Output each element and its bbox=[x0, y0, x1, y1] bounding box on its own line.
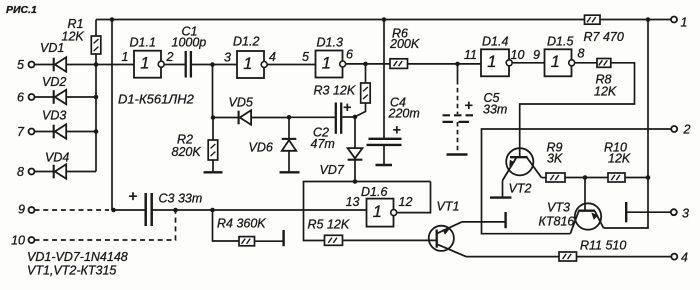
node VD5 anode junction bbox=[211, 115, 216, 120]
gate D1.3 bbox=[316, 51, 343, 78]
diode VD4 bbox=[35, 171, 54, 173]
svg-text:C3 33m: C3 33m bbox=[159, 192, 203, 206]
svg-text:РИС.1: РИС.1 bbox=[6, 4, 37, 16]
gate D1.6 bbox=[367, 199, 394, 227]
node D1.3 output junction bbox=[363, 62, 368, 67]
node C2-VD7 junction bbox=[353, 115, 358, 120]
terminal pin 7 bbox=[29, 129, 35, 135]
wire R11 to pin4 bbox=[577, 256, 672, 258]
svg-text:VD1-VD7-1N4148: VD1-VD7-1N4148 bbox=[27, 250, 128, 264]
wire rail to pin9 line bbox=[111, 20, 113, 211]
svg-text:VT3: VT3 bbox=[547, 201, 570, 215]
svg-text:820K: 820K bbox=[172, 145, 202, 159]
svg-text:1: 1 bbox=[373, 203, 382, 221]
ground C4 bbox=[376, 164, 393, 166]
node C1 output junction bbox=[210, 62, 215, 67]
svg-text:9: 9 bbox=[533, 48, 540, 62]
svg-text:VD2: VD2 bbox=[42, 75, 66, 89]
capacitor C2 bbox=[289, 116, 335, 118]
wire VT3 base bbox=[584, 178, 586, 211]
diode VD2 bbox=[35, 96, 54, 98]
svg-text:1: 1 bbox=[322, 54, 331, 72]
svg-text:2: 2 bbox=[683, 123, 691, 137]
resistor R2 bbox=[212, 118, 214, 141]
gate D1.5 bbox=[545, 49, 572, 76]
svg-text:1: 1 bbox=[122, 50, 129, 64]
node rail junction C4 tap bbox=[382, 17, 387, 22]
transistor VT3 bbox=[575, 203, 601, 229]
svg-text:1: 1 bbox=[681, 16, 688, 30]
capacitor C3 bbox=[144, 193, 147, 226]
diode VD1 bbox=[35, 64, 54, 66]
svg-text:10: 10 bbox=[11, 234, 25, 248]
svg-text:5: 5 bbox=[302, 50, 309, 64]
svg-text:VD4: VD4 bbox=[45, 151, 69, 165]
terminal pin 3 bbox=[671, 209, 677, 215]
svg-text:6: 6 bbox=[17, 91, 24, 105]
wire pin1 vertical bbox=[604, 20, 649, 229]
svg-text:200K: 200K bbox=[389, 37, 420, 51]
svg-text:VT1,VT2-КТ315: VT1,VT2-КТ315 bbox=[27, 264, 116, 278]
node bus-VD1 bbox=[94, 62, 99, 67]
svg-text:3: 3 bbox=[682, 207, 689, 221]
node C5 tap bbox=[455, 62, 460, 67]
svg-text:D1-К561ЛН2: D1-К561ЛН2 bbox=[118, 92, 195, 107]
resistor R1 bbox=[95, 20, 97, 37]
svg-text:R4 360K: R4 360K bbox=[217, 217, 266, 231]
svg-text:33m: 33m bbox=[483, 103, 507, 117]
wire R9 to R10 bbox=[565, 177, 608, 179]
diode VD5 bbox=[213, 117, 239, 119]
transistor VT1 bbox=[429, 226, 454, 251]
wire plate to pin3 bbox=[626, 211, 670, 213]
diode VD7 bbox=[354, 117, 356, 148]
wire D1.2 out to D1.3 bbox=[268, 64, 316, 66]
svg-text:1: 1 bbox=[551, 53, 560, 71]
node bus-VD2 bbox=[94, 95, 99, 100]
svg-text:D1.4: D1.4 bbox=[482, 35, 508, 49]
svg-text:1: 1 bbox=[140, 55, 149, 73]
node bus-VD3 bbox=[94, 129, 99, 134]
ground VT2 emitter bbox=[490, 196, 512, 198]
terminal pin 6 bbox=[29, 94, 35, 100]
svg-text:D1.1: D1.1 bbox=[130, 36, 156, 50]
transistor VT2 bbox=[506, 148, 533, 175]
terminal pin 9 bbox=[29, 207, 35, 213]
terminal pin 5 bbox=[29, 62, 35, 68]
svg-text:5: 5 bbox=[17, 58, 24, 72]
svg-text:D1.5: D1.5 bbox=[547, 35, 573, 49]
wire D1.3 out bbox=[346, 63, 390, 65]
node VT3 base junction bbox=[583, 175, 588, 180]
ground plate VT1 bbox=[504, 212, 506, 228]
resistor R3 bbox=[365, 64, 367, 83]
ground VD6 bbox=[280, 171, 300, 173]
resistor R11 bbox=[559, 252, 577, 261]
svg-text:КТ816: КТ816 bbox=[539, 215, 575, 229]
node rail junction at x112 bbox=[110, 17, 115, 22]
wire R8 to VT2 base bbox=[520, 63, 635, 157]
svg-text:D1.3: D1.3 bbox=[317, 36, 343, 50]
svg-text:3: 3 bbox=[224, 51, 231, 65]
capacitor C5 (dashed) bbox=[457, 64, 459, 80]
terminal pin 2 bbox=[671, 126, 677, 132]
svg-text:VD7: VD7 bbox=[320, 163, 345, 177]
resistor R7 bbox=[585, 15, 601, 24]
svg-text:12K: 12K bbox=[594, 85, 617, 99]
node R4 junction bbox=[210, 208, 215, 213]
svg-text:VD5: VD5 bbox=[229, 96, 253, 110]
svg-text:8: 8 bbox=[578, 47, 585, 61]
svg-text:12: 12 bbox=[399, 195, 413, 209]
svg-text:2: 2 bbox=[166, 50, 174, 64]
resistor R8 bbox=[597, 59, 611, 68]
svg-text:VT1: VT1 bbox=[437, 200, 460, 214]
svg-text:220m: 220m bbox=[388, 107, 420, 121]
resistor R5 bbox=[325, 235, 343, 245]
svg-text:R3 12K: R3 12K bbox=[314, 84, 356, 98]
svg-text:1: 1 bbox=[243, 55, 252, 73]
terminal pin 1 bbox=[671, 17, 677, 23]
capacitor C4 bbox=[383, 20, 385, 139]
wire pin9 dashed bbox=[35, 209, 110, 211]
svg-text:R7 470: R7 470 bbox=[584, 30, 624, 44]
wire diode bus bbox=[95, 65, 97, 172]
svg-text:VD1: VD1 bbox=[40, 41, 64, 55]
ground C5 bbox=[447, 153, 468, 155]
wire top supply rail bbox=[96, 19, 671, 21]
wire R10 to pin1 net bbox=[625, 177, 648, 179]
svg-text:12K: 12K bbox=[608, 152, 631, 166]
wire D1.6 out bbox=[397, 182, 430, 213]
gate D1.4 bbox=[481, 49, 509, 76]
svg-text:11: 11 bbox=[464, 48, 477, 62]
svg-text:R5 12K: R5 12K bbox=[308, 218, 350, 232]
diode VD3 bbox=[35, 131, 54, 133]
node pin9 junction bbox=[111, 208, 116, 213]
gate D1.2 bbox=[237, 51, 264, 78]
terminal pin 8 bbox=[29, 169, 35, 175]
svg-text:D1.2: D1.2 bbox=[233, 35, 259, 49]
resistor R9 bbox=[546, 173, 565, 182]
node VD6 junction bbox=[287, 115, 292, 120]
resistor R4 bbox=[213, 210, 240, 241]
wire C1 junction drop bbox=[212, 65, 214, 118]
resistor R6 bbox=[390, 59, 408, 69]
node rail junction pin1 bbox=[646, 17, 651, 22]
node R10 pin1-net junction bbox=[646, 175, 651, 180]
node VD7-net junction bbox=[353, 179, 358, 184]
wire D1.4 to D1.5 bbox=[513, 62, 545, 64]
ground plate R4 bbox=[282, 230, 284, 246]
diode VD6 bbox=[288, 117, 290, 139]
svg-text:3K: 3K bbox=[547, 152, 563, 166]
svg-text:VT2: VT2 bbox=[509, 182, 532, 196]
op-amp U1 gate D1.1 bbox=[134, 51, 161, 78]
svg-text:VD6: VD6 bbox=[249, 141, 273, 155]
svg-text:10: 10 bbox=[511, 48, 525, 62]
svg-text:4: 4 bbox=[681, 251, 688, 265]
wire D1.5 out bbox=[575, 62, 597, 64]
terminal pin 10 bbox=[29, 237, 35, 243]
resistor R10 bbox=[608, 173, 625, 182]
wire pin10 dashed bbox=[35, 212, 176, 240]
wire VD7 net bbox=[304, 182, 431, 241]
wire R5 to VT1 base bbox=[343, 239, 437, 241]
svg-text:4: 4 bbox=[269, 50, 276, 64]
svg-text:D1.6: D1.6 bbox=[361, 185, 387, 199]
svg-text:1: 1 bbox=[487, 53, 496, 71]
svg-text:1000p: 1000p bbox=[172, 36, 207, 50]
terminal pin 4 bbox=[671, 254, 677, 260]
svg-text:12K: 12K bbox=[62, 30, 85, 44]
svg-text:13: 13 bbox=[346, 195, 360, 209]
svg-text:7: 7 bbox=[17, 125, 25, 139]
ground R2 bbox=[204, 171, 223, 173]
wire VD1 to D1.1 input bbox=[66, 64, 134, 66]
svg-text:VD3: VD3 bbox=[42, 109, 66, 123]
svg-text:47m: 47m bbox=[311, 137, 335, 151]
svg-text:8: 8 bbox=[17, 165, 24, 179]
wire VT1 emitter to plate bbox=[462, 221, 505, 223]
wire pin2 to VT3 bbox=[482, 129, 672, 234]
wire pin9 to C3 bbox=[114, 209, 146, 211]
wire VT1 collector row bbox=[466, 256, 559, 258]
capacitor C1 bbox=[165, 64, 185, 66]
wire R6 to D1.4 bbox=[408, 63, 482, 65]
svg-text:9: 9 bbox=[18, 203, 25, 217]
node pin10 junction bbox=[173, 208, 178, 213]
svg-text:R11 510: R11 510 bbox=[580, 239, 626, 253]
svg-text:6: 6 bbox=[346, 48, 353, 62]
ground plate pin3 bbox=[625, 202, 627, 222]
